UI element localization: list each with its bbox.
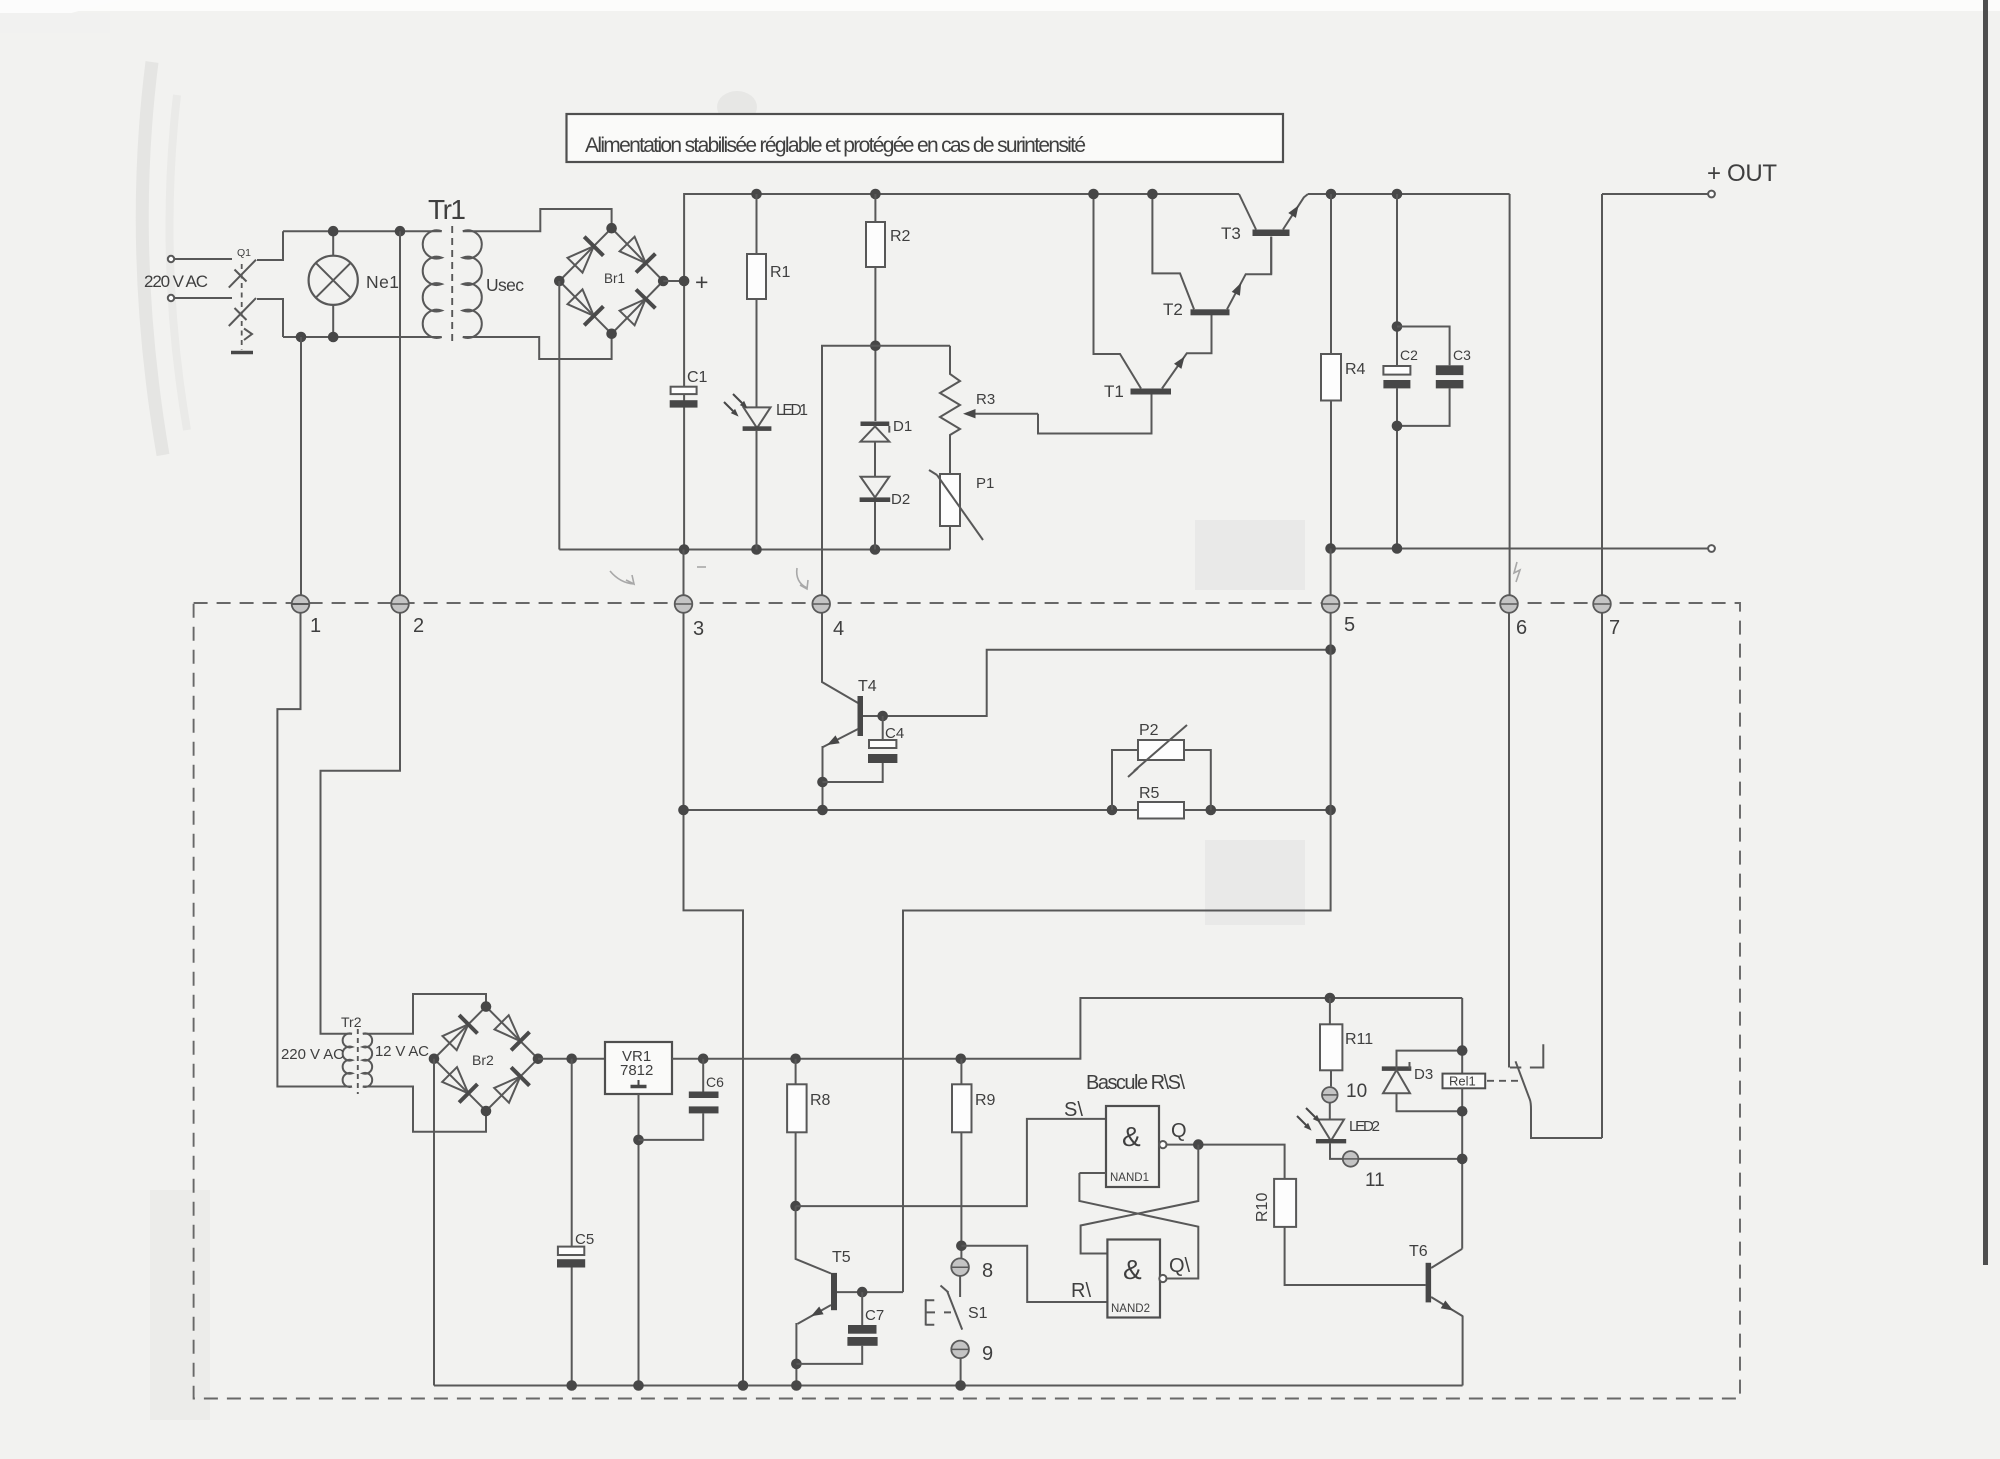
svg-text:LED2: LED2	[1349, 1118, 1380, 1135]
svg-text:220 V AC: 220 V AC	[144, 272, 208, 291]
svg-text:+: +	[695, 269, 708, 295]
svg-text:R\: R\	[1071, 1280, 1091, 1302]
svg-text:2: 2	[413, 615, 424, 637]
svg-text:3: 3	[693, 618, 704, 640]
svg-text:11: 11	[1365, 1170, 1385, 1191]
svg-text:Rel1: Rel1	[1449, 1074, 1476, 1089]
svg-text:T2: T2	[1163, 300, 1183, 319]
svg-text:Alimentation stabilisée réglab: Alimentation stabilisée réglable et prot…	[585, 134, 1086, 157]
svg-text:NAND2: NAND2	[1111, 1303, 1150, 1315]
svg-text:T3: T3	[1221, 224, 1241, 243]
svg-text:C2: C2	[1400, 347, 1418, 363]
svg-text:Usec: Usec	[486, 275, 524, 295]
svg-text:R11: R11	[1345, 1031, 1373, 1048]
svg-text:1: 1	[310, 615, 321, 637]
svg-text:C6: C6	[706, 1074, 724, 1090]
svg-text:R2: R2	[890, 228, 911, 245]
svg-text:+ OUT: + OUT	[1707, 160, 1777, 187]
svg-text:Ne1: Ne1	[366, 272, 399, 292]
svg-text:T6: T6	[1409, 1243, 1428, 1260]
svg-text:8: 8	[982, 1260, 993, 1282]
svg-text:C5: C5	[575, 1231, 594, 1248]
svg-text:7812: 7812	[620, 1062, 653, 1079]
svg-text:R8: R8	[810, 1092, 831, 1109]
svg-text:9: 9	[982, 1343, 993, 1365]
svg-text:Br1: Br1	[604, 271, 625, 286]
svg-text:T1: T1	[1104, 382, 1124, 401]
svg-text:4: 4	[833, 618, 844, 640]
svg-text:P1: P1	[976, 475, 994, 492]
svg-text:C4: C4	[885, 725, 904, 742]
svg-text:R5: R5	[1139, 785, 1160, 802]
svg-text:R1: R1	[770, 264, 791, 281]
svg-text:Q: Q	[1171, 1120, 1187, 1142]
svg-text:10: 10	[1346, 1081, 1367, 1102]
svg-text:C3: C3	[1453, 347, 1471, 363]
svg-text:T4: T4	[858, 678, 877, 695]
svg-text:R4: R4	[1345, 361, 1366, 378]
svg-text:Tr2: Tr2	[341, 1014, 362, 1030]
svg-text:D2: D2	[891, 491, 910, 508]
svg-text:6: 6	[1516, 617, 1527, 639]
svg-text:5: 5	[1344, 614, 1355, 636]
svg-text:NAND1: NAND1	[1110, 1172, 1149, 1184]
svg-text:R10: R10	[1254, 1193, 1271, 1222]
svg-text:12 V AC: 12 V AC	[375, 1043, 429, 1060]
svg-text:LED1: LED1	[776, 402, 808, 419]
svg-text:P2: P2	[1139, 722, 1159, 739]
svg-text:D1: D1	[893, 418, 912, 435]
svg-text:7: 7	[1609, 617, 1620, 639]
svg-text:Tr1: Tr1	[428, 194, 466, 225]
svg-text:R3: R3	[976, 391, 995, 408]
svg-text:C7: C7	[865, 1307, 884, 1324]
svg-text:Br2: Br2	[472, 1052, 494, 1068]
svg-text:R9: R9	[975, 1092, 996, 1109]
svg-text:&: &	[1122, 1121, 1141, 1152]
svg-text:220 V AC: 220 V AC	[281, 1046, 344, 1063]
svg-text:S1: S1	[968, 1305, 988, 1322]
svg-text:C1: C1	[687, 369, 708, 386]
svg-text:T5: T5	[832, 1249, 851, 1266]
svg-text:D3: D3	[1414, 1066, 1433, 1083]
svg-text:Q\: Q\	[1169, 1255, 1191, 1277]
svg-text:Q1: Q1	[237, 247, 251, 259]
svg-text:&: &	[1123, 1254, 1142, 1285]
svg-text:Bascule R\S\: Bascule R\S\	[1086, 1072, 1185, 1094]
svg-text:S\: S\	[1064, 1099, 1083, 1121]
